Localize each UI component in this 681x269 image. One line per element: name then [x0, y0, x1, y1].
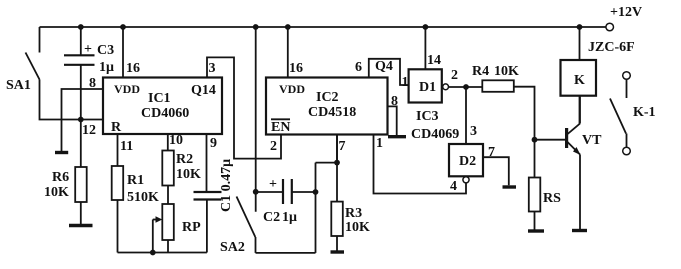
svg-text:SA2: SA2: [220, 240, 245, 255]
svg-text:VDD: VDD: [114, 82, 140, 96]
svg-text:3: 3: [470, 124, 477, 139]
svg-text:7: 7: [488, 145, 495, 160]
svg-text:VT: VT: [582, 133, 602, 148]
svg-text:Q14: Q14: [191, 83, 216, 98]
svg-text:IC1: IC1: [148, 91, 171, 106]
svg-text:8: 8: [391, 94, 398, 109]
svg-text:6: 6: [355, 60, 362, 75]
svg-text:EN: EN: [271, 120, 290, 135]
svg-text:3: 3: [209, 61, 216, 76]
svg-text:10K: 10K: [44, 185, 69, 200]
svg-text:K: K: [574, 73, 585, 88]
svg-text:1μ: 1μ: [282, 210, 297, 225]
svg-text:2: 2: [270, 139, 277, 154]
svg-text:1μ: 1μ: [99, 60, 114, 75]
svg-text:R3: R3: [345, 206, 362, 221]
svg-text:10K: 10K: [494, 64, 519, 79]
svg-text:IC3: IC3: [416, 109, 439, 124]
svg-text:510K: 510K: [127, 190, 159, 205]
svg-text:7: 7: [339, 139, 346, 154]
svg-text:VDD: VDD: [279, 82, 305, 96]
svg-text:CD4060: CD4060: [141, 106, 189, 121]
svg-text:CD4069: CD4069: [411, 127, 459, 142]
svg-text:D1: D1: [419, 80, 436, 95]
svg-text:10K: 10K: [345, 220, 370, 235]
svg-text:R: R: [111, 120, 122, 135]
svg-text:+12V: +12V: [610, 5, 642, 20]
svg-text:8: 8: [89, 76, 96, 91]
svg-text:C1 0.47μ: C1 0.47μ: [219, 159, 234, 212]
svg-text:12: 12: [82, 123, 96, 138]
svg-text:R2: R2: [176, 152, 193, 167]
svg-text:16: 16: [289, 61, 303, 76]
svg-text:10: 10: [169, 133, 183, 148]
svg-text:4: 4: [450, 179, 457, 194]
svg-text:D2: D2: [459, 154, 476, 169]
svg-text:14: 14: [427, 53, 441, 68]
svg-text:9: 9: [210, 136, 217, 151]
svg-text:Q4: Q4: [375, 59, 393, 74]
svg-text:IC2: IC2: [316, 90, 339, 105]
svg-text:+: +: [269, 177, 277, 192]
svg-text:K-1: K-1: [633, 105, 656, 120]
svg-text:2: 2: [451, 68, 458, 83]
svg-text:1: 1: [376, 136, 383, 151]
svg-text:R1: R1: [127, 173, 144, 188]
svg-text:10K: 10K: [176, 167, 201, 182]
svg-text:11: 11: [120, 139, 133, 154]
svg-text:JZC-6F: JZC-6F: [588, 40, 635, 55]
svg-text:C3: C3: [97, 43, 114, 58]
svg-text:R6: R6: [52, 170, 69, 185]
svg-text:1: 1: [402, 75, 409, 90]
svg-text:RS: RS: [543, 191, 561, 206]
svg-text:RP: RP: [182, 220, 201, 235]
svg-text:CD4518: CD4518: [308, 105, 356, 120]
svg-text:16: 16: [126, 61, 140, 76]
svg-text:+: +: [84, 42, 92, 57]
svg-text:C2: C2: [263, 210, 280, 225]
svg-text:R4: R4: [472, 64, 489, 79]
svg-text:SA1: SA1: [6, 78, 31, 93]
